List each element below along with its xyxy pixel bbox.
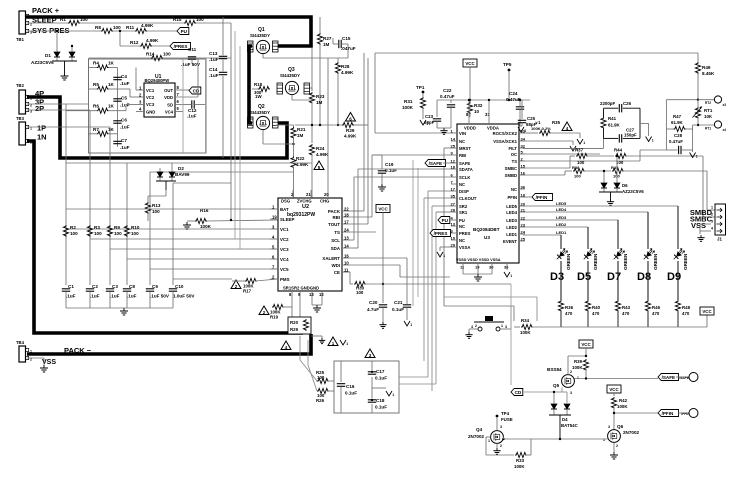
label 3P <box>35 98 44 107</box>
svg-text:R8: R8 <box>95 25 101 30</box>
svg-text:LED3: LED3 <box>556 215 567 220</box>
svg-text:C18: C18 <box>376 398 385 403</box>
capacitor C18 <box>368 398 387 410</box>
wire TB4 VSS <box>27 358 44 365</box>
wire SMBC mid <box>586 155 614 157</box>
svg-text:R14: R14 <box>146 52 155 57</box>
wire SMBus SCLK <box>350 177 451 240</box>
wire SMBC right <box>625 156 715 217</box>
svg-text:R20: R20 <box>290 320 299 325</box>
capacitor C19 <box>378 162 397 184</box>
svg-text:VCC: VCC <box>702 309 712 314</box>
svg-text:R7: R7 <box>93 127 99 132</box>
svg-text:/PRES: /PRES <box>434 231 448 236</box>
svg-text:D9: D9 <box>667 271 681 283</box>
diode D6 dual zener AZ23C5V6 <box>599 155 644 199</box>
wire thick Q1 source to Q2 drain <box>249 46 252 123</box>
svg-text:CHG: CHG <box>320 199 329 204</box>
ground TB4 VSS <box>40 365 48 372</box>
flag CD Q5 <box>511 389 554 396</box>
svg-text:PACK +: PACK + <box>32 6 60 15</box>
resistor R17 <box>231 278 278 293</box>
svg-text:.1uF: .1uF <box>120 81 130 86</box>
wire varrow R35 <box>577 133 585 145</box>
svg-text:Q5: Q5 <box>553 383 560 388</box>
label SYS PRES <box>32 26 70 35</box>
svg-text:C15: C15 <box>342 36 351 41</box>
capacitor C25 <box>518 100 537 127</box>
svg-text:SR1SR2 GNDGND: SR1SR2 GNDGND <box>283 286 319 291</box>
wire D8 cathode <box>647 261 649 300</box>
svg-text:VSSA: VSSA <box>459 245 470 250</box>
capacitor C5 <box>113 96 129 108</box>
svg-text:RT1: RT1 <box>704 108 713 113</box>
svg-text:LED5: LED5 <box>556 201 567 206</box>
svg-text:R6: R6 <box>93 104 99 109</box>
svg-text:.1uF: .1uF <box>209 57 219 62</box>
svg-text:0.1uF: 0.1uF <box>345 391 357 396</box>
svg-text:C4: C4 <box>121 74 127 79</box>
ground cell filter <box>120 308 128 315</box>
svg-text:LED1: LED1 <box>506 232 517 237</box>
svg-text:SMBC: SMBC <box>505 166 517 171</box>
capacitor C15 <box>333 36 356 58</box>
resistor R22 <box>291 144 309 198</box>
svg-text:VSSA/XCK1: VSSA/XCK1 <box>493 139 517 144</box>
svg-text:100K: 100K <box>402 105 414 110</box>
svg-text:CE: CE <box>334 270 340 275</box>
svg-text:FUSE: FUSE <box>501 417 513 422</box>
svg-text:150pF: 150pF <box>624 133 637 138</box>
label SMBD <box>690 208 713 217</box>
svg-text:3: 3 <box>500 425 502 429</box>
svg-text:AZ23C5V6: AZ23C5V6 <box>622 189 644 194</box>
wire SYS PRES net <box>27 30 177 32</box>
wire D3 cathode <box>560 261 562 300</box>
resistor R7 <box>93 127 115 137</box>
svg-text:R35: R35 <box>552 120 561 125</box>
svg-text:VCC: VCC <box>378 207 388 212</box>
flag PU <box>177 28 189 35</box>
svg-text:0.1uF: 0.1uF <box>375 376 387 381</box>
svg-text:LED4: LED4 <box>556 207 567 212</box>
svg-text:Q4: Q4 <box>476 427 483 432</box>
ground J1 <box>697 235 704 241</box>
svg-text:C1: C1 <box>68 284 74 289</box>
svg-text:100: 100 <box>80 17 88 22</box>
wire tap col6 <box>172 183 174 285</box>
svg-text:D1: D1 <box>45 53 51 58</box>
svg-text:SMBD: SMBD <box>505 173 517 178</box>
diode D2 dual BAV99 <box>156 163 190 190</box>
svg-text:R44: R44 <box>614 148 623 153</box>
svg-text:VC4: VC4 <box>280 257 289 262</box>
wire 1P tap <box>27 127 110 285</box>
resistor R13 <box>148 190 166 202</box>
flag /SAFE U3 <box>425 160 451 167</box>
svg-text:R33: R33 <box>516 458 525 463</box>
svg-text:21: 21 <box>306 192 311 197</box>
wire varrow sense <box>340 340 348 346</box>
resistor R23 <box>309 48 324 143</box>
led D7 GREEN <box>607 249 628 283</box>
svg-text:R17: R17 <box>243 289 252 294</box>
label VSS <box>42 359 56 366</box>
wire D2 net horizontals <box>127 163 312 183</box>
wire RBI net <box>350 155 451 217</box>
svg-text:C16: C16 <box>346 384 355 389</box>
svg-text:PFIN: PFIN <box>507 195 517 200</box>
svg-text:DSG: DSG <box>281 199 290 204</box>
svg-text:4: 4 <box>711 227 713 231</box>
transistor Q5 BSS84 <box>547 367 579 395</box>
resistor R20 R29 sense <box>288 317 311 334</box>
resistor R38 <box>572 165 585 179</box>
tp TP5 <box>503 62 512 101</box>
ground C22 C23 <box>437 112 451 134</box>
capacitor C24 <box>506 91 524 126</box>
svg-text:BAV99: BAV99 <box>175 172 190 177</box>
resistor R45 <box>611 165 624 179</box>
svg-text:VC2: VC2 <box>146 95 155 100</box>
svg-text:100: 100 <box>196 17 204 22</box>
ic U3 bottom pins <box>456 258 509 270</box>
wire top supply rail <box>437 99 530 117</box>
ground D6 <box>607 199 614 205</box>
svg-text:TOUT: TOUT <box>328 222 340 227</box>
svg-text:1M: 1M <box>323 42 330 47</box>
svg-text:D8: D8 <box>637 271 651 283</box>
capacitor C28 <box>666 129 692 154</box>
svg-text:12: 12 <box>319 292 324 297</box>
svg-text:.1uF: .1uF <box>120 125 130 130</box>
wire Q4 drain <box>502 437 504 439</box>
svg-text:R40: R40 <box>592 305 601 310</box>
svg-text:1K: 1K <box>108 127 115 132</box>
wire C13 C14 column <box>222 17 224 158</box>
wire C16 box <box>334 361 399 413</box>
wire kelvin taps <box>300 336 317 391</box>
wire U1 pins <box>136 90 198 112</box>
svg-text:PACK −: PACK − <box>64 346 92 355</box>
wire varrow C17C18 <box>386 391 394 397</box>
label 1P <box>37 124 46 133</box>
wire U1 pin nets <box>118 68 137 111</box>
svg-text:VC4: VC4 <box>165 110 174 115</box>
svg-text:PMS: PMS <box>280 277 290 282</box>
svg-text:R12: R12 <box>130 40 139 45</box>
svg-text:/SAFE: /SAFE <box>429 161 443 166</box>
svg-text:R27: R27 <box>323 36 332 41</box>
svg-text:SLEEP: SLEEP <box>280 217 294 222</box>
svg-text:.1uF: .1uF <box>66 294 76 299</box>
svg-text:R15: R15 <box>173 17 182 22</box>
svg-text:R21: R21 <box>297 127 306 132</box>
warning triangle 4 <box>281 341 291 350</box>
svg-text:3: 3 <box>570 391 572 395</box>
wire OC net <box>523 153 600 155</box>
resistor R47 <box>666 114 698 132</box>
svg-text:C3: C3 <box>112 284 118 289</box>
wire R14 C11 net <box>89 57 232 59</box>
svg-text:TP5: TP5 <box>503 62 512 67</box>
svg-text:R37: R37 <box>575 148 584 153</box>
svg-text:J1: J1 <box>717 237 722 242</box>
resistor R18 <box>252 82 270 99</box>
svg-text:C24: C24 <box>509 91 518 96</box>
capacitor C2 <box>86 284 100 299</box>
wire Q3 drain net <box>310 88 312 91</box>
svg-text:LED5: LED5 <box>506 204 517 209</box>
svg-text:1K: 1K <box>108 104 115 109</box>
svg-text:100K: 100K <box>514 464 525 469</box>
svg-text:R42: R42 <box>619 398 628 403</box>
svg-text:LED4: LED4 <box>506 210 517 215</box>
svg-text:R13: R13 <box>152 203 161 208</box>
capacitor C8 <box>123 284 137 299</box>
ic U2 left pins <box>270 205 294 283</box>
ic U3 left pins <box>451 129 477 251</box>
svg-text:R38: R38 <box>572 165 580 170</box>
ic U3 top pins <box>466 112 490 124</box>
svg-text:1M: 1M <box>297 133 304 138</box>
switch S1 pushbutton <box>471 316 507 331</box>
svg-text:CD: CD <box>515 390 522 395</box>
svg-text:R1: R1 <box>60 17 66 22</box>
wire Q4 source gnd <box>493 443 500 454</box>
svg-text:D6: D6 <box>622 183 628 188</box>
flag VCC U2 area <box>376 205 390 213</box>
svg-text:C12: C12 <box>188 108 197 113</box>
warning triangle 6 <box>346 113 356 122</box>
ic U3 BQ2084DBT <box>457 124 519 263</box>
svg-text:1: 1 <box>30 350 32 354</box>
svg-text:100: 100 <box>574 174 581 179</box>
wire C4-C7 column <box>117 68 119 148</box>
wire sense out <box>372 387 386 389</box>
resistor R49 <box>695 53 715 100</box>
wire D5 cathode <box>587 261 589 300</box>
svg-text:13: 13 <box>309 292 314 297</box>
svg-text:C6: C6 <box>121 118 127 123</box>
diode D4 bars <box>549 409 579 439</box>
wire VDD net <box>197 59 199 97</box>
svg-text:4.99K: 4.99K <box>141 23 154 28</box>
svg-text:VCC: VCC <box>609 387 619 392</box>
wire J1 VSS <box>700 224 711 234</box>
svg-text:19: 19 <box>475 265 480 270</box>
ic U1 BQ29400PW <box>139 74 180 117</box>
capacitor C12 <box>187 100 206 118</box>
svg-text:TS: TS <box>334 230 340 235</box>
svg-text:VDDD: VDDD <box>464 126 476 131</box>
resistor R37 <box>575 148 588 166</box>
svg-text:PACK: PACK <box>328 209 341 214</box>
wire PACK net <box>350 53 364 211</box>
svg-text:C19: C19 <box>385 162 394 167</box>
svg-text:1: 1 <box>696 155 698 159</box>
wire filter box <box>604 108 641 138</box>
svg-text:RBI: RBI <box>332 215 340 220</box>
tp TP4 FUSE <box>496 411 513 431</box>
resistor R34 <box>514 318 561 335</box>
wire sense to U2 SR filter <box>399 376 428 378</box>
wire SR1 SR2 to sense <box>292 299 300 318</box>
svg-text:CD: CD <box>193 88 200 93</box>
wire varrow R31 <box>420 120 428 126</box>
resistor R25 <box>316 370 334 384</box>
svg-text:R22: R22 <box>296 156 305 161</box>
wire SLEEP vertical <box>230 23 232 221</box>
svg-text:100: 100 <box>317 375 325 380</box>
label VSS J1 <box>691 221 706 230</box>
svg-text:TB3: TB3 <box>16 116 25 121</box>
svg-text:SAFE: SAFE <box>459 161 470 166</box>
svg-text:ZVCHG: ZVCHG <box>297 199 312 204</box>
svg-text:D7: D7 <box>607 271 621 283</box>
svg-text:R49: R49 <box>702 65 711 70</box>
svg-text:100K: 100K <box>520 330 531 335</box>
wire R12 net <box>120 31 170 46</box>
svg-text:470: 470 <box>592 311 600 316</box>
svg-text:MRST: MRST <box>459 146 471 151</box>
svg-text:470: 470 <box>682 311 690 316</box>
wire 3P tap <box>27 104 89 285</box>
wire SAFE out <box>574 378 658 380</box>
svg-text:VCC: VCC <box>465 61 475 66</box>
svg-text:.1uF: .1uF <box>120 145 130 150</box>
wire Q6 gate net <box>502 438 608 440</box>
svg-text:GREEN: GREEN <box>623 253 628 270</box>
svg-text:10K: 10K <box>704 114 713 119</box>
svg-text:2: 2 <box>570 370 572 374</box>
wire FILT net <box>523 138 604 148</box>
resistor R13 body <box>145 202 160 221</box>
svg-text:GREEN: GREEN <box>683 253 688 270</box>
svg-text:31: 31 <box>485 112 490 117</box>
svg-text:R45: R45 <box>611 165 619 170</box>
ic U3 right pins <box>493 129 526 245</box>
svg-text:R10: R10 <box>131 225 140 230</box>
wire SMBD mid <box>583 170 611 172</box>
transistor Q3 SI4435DY <box>277 67 310 95</box>
resistor R43 <box>615 300 630 327</box>
svg-text:.1uF: .1uF <box>90 294 100 299</box>
wire VIN net <box>375 53 451 133</box>
svg-text:R3: R3 <box>94 225 100 230</box>
resistor R5 <box>93 82 115 92</box>
capacitor C22 <box>440 88 455 112</box>
resistor R42 <box>611 393 628 430</box>
flag /PFIN out <box>613 409 698 418</box>
warning triangle 5 <box>314 161 324 170</box>
flag VCC top <box>463 59 477 67</box>
wire TS to divider <box>640 100 666 161</box>
svg-text:2N7002: 2N7002 <box>468 434 485 439</box>
svg-text:SD: SD <box>167 103 173 108</box>
svg-text:R31: R31 <box>404 99 413 104</box>
svg-text:2: 2 <box>500 444 502 448</box>
svg-text:100: 100 <box>152 209 160 214</box>
svg-text:PU: PU <box>459 218 465 223</box>
label 2P <box>35 104 44 113</box>
svg-text:/SAFE: /SAFE <box>662 375 676 380</box>
label SLEEP <box>32 16 57 25</box>
svg-text:VSSD VSSD VSSD VSSA: VSSD VSSD VSSD VSSA <box>456 258 501 262</box>
capacitor C3 <box>106 284 120 299</box>
wire SR1 long <box>399 212 451 384</box>
resistor R4 <box>93 61 115 71</box>
wire big box top <box>375 52 698 54</box>
flag /PFIN U3 <box>523 194 553 201</box>
svg-text:FILT: FILT <box>508 146 517 151</box>
svg-text:470: 470 <box>565 311 573 316</box>
svg-text:1: 1 <box>577 376 579 380</box>
svg-text:1: 1 <box>501 324 503 328</box>
svg-text:NC: NC <box>459 182 465 187</box>
wire thick PACK+ rail to Q1 drain <box>26 17 311 46</box>
svg-text:R29: R29 <box>290 327 299 332</box>
wire LED rail to VCC <box>561 315 707 327</box>
svg-text:R9: R9 <box>114 225 120 230</box>
wire WDI net <box>350 265 450 277</box>
svg-text:.1uF: .1uF <box>209 73 219 78</box>
svg-text:8.45K: 8.45K <box>702 71 715 76</box>
svg-text:4.7uF: 4.7uF <box>367 307 379 312</box>
svg-text:D5: D5 <box>577 271 591 283</box>
wire CD net vertical <box>510 284 512 385</box>
svg-text:R18: R18 <box>254 82 263 87</box>
svg-text:/PFIN: /PFIN <box>662 411 674 416</box>
wire U1 block outline box <box>89 59 207 153</box>
svg-text:100: 100 <box>94 231 102 236</box>
resistor R3 <box>87 225 102 237</box>
wire TOUT net <box>350 58 368 224</box>
svg-text:R39: R39 <box>574 359 583 364</box>
led D5 GREEN <box>577 249 598 283</box>
flag CD <box>189 87 201 94</box>
resistor R35 <box>523 120 580 136</box>
diode D4 body <box>551 392 570 409</box>
svg-text:R41: R41 <box>608 116 617 121</box>
svg-text:61.9K: 61.9K <box>671 120 684 125</box>
svg-text:VIN: VIN <box>459 131 466 136</box>
capacitor C16 <box>337 361 357 413</box>
svg-text:1: 1 <box>583 141 585 145</box>
wire SR2 SR1 nets <box>432 206 451 391</box>
svg-text:PU: PU <box>181 29 188 34</box>
svg-text:3: 3 <box>608 425 610 429</box>
transistor Q4 2N7002 <box>468 425 503 448</box>
svg-text:∨1: ∨1 <box>535 120 541 125</box>
resistor R10 <box>124 225 139 237</box>
svg-text:x3: x3 <box>723 103 727 107</box>
svg-text:EVENT: EVENT <box>503 239 517 244</box>
svg-text:100: 100 <box>356 290 364 295</box>
flag VCC LED <box>700 307 714 315</box>
svg-text:R29: R29 <box>346 128 355 133</box>
flag /PRES <box>170 43 191 50</box>
wire XALERT net <box>350 257 407 259</box>
svg-text:C7: C7 <box>121 138 127 143</box>
ground U3 VSSD <box>463 270 492 281</box>
svg-text:1K: 1K <box>108 61 115 66</box>
capacitor C4 <box>113 74 129 86</box>
diode D1 dual zener AZ23C5V6 <box>31 52 77 73</box>
svg-text:D2: D2 <box>178 166 184 171</box>
capacitor C6 <box>113 118 129 130</box>
svg-text:NC: NC <box>459 139 465 144</box>
